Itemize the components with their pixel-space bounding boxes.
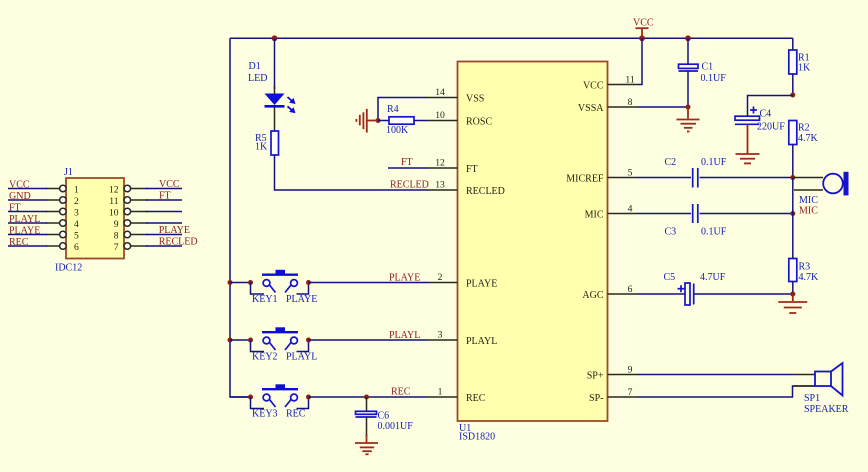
pin 3 PLAYL [428, 329, 497, 347]
svg-text:8: 8 [114, 231, 119, 242]
svg-text:VCC: VCC [159, 179, 180, 190]
svg-text:RECLED: RECLED [159, 236, 198, 247]
svg-text:MICREF: MICREF [566, 174, 604, 185]
pin 10 J1 [109, 208, 148, 219]
svg-text:4.7K: 4.7K [798, 133, 819, 144]
svg-text:PLAYE: PLAYE [389, 273, 420, 284]
svg-text:SP1: SP1 [804, 393, 820, 404]
microphone MIC [794, 172, 849, 217]
node junction AGC/R3 [790, 292, 795, 297]
capacitor C4 220UF polarized [735, 107, 785, 133]
svg-text:PLAYE: PLAYE [159, 225, 190, 236]
wire D1 anode from rail [274, 38, 276, 89]
wire J1 VCC left [8, 188, 47, 190]
svg-text:AGC: AGC [582, 290, 603, 301]
svg-text:3: 3 [438, 329, 443, 340]
svg-text:PLAYE: PLAYE [466, 279, 497, 290]
svg-text:R3: R3 [799, 262, 811, 273]
svg-text:C2: C2 [665, 157, 677, 168]
svg-text:C3: C3 [665, 226, 677, 237]
svg-text:RECLED: RECLED [390, 180, 429, 191]
wire J1 RECLED right [146, 245, 182, 247]
svg-text:MIC: MIC [585, 210, 604, 221]
pin 7 J1 [114, 242, 148, 253]
node junction R1/R2/C4 [790, 93, 795, 98]
wire VSSA to ground node [638, 106, 689, 108]
connector J1 body [55, 167, 124, 274]
svg-text:4.7K: 4.7K [799, 272, 820, 283]
capacitor C2 [638, 157, 793, 188]
pin 5 J1 [46, 231, 79, 242]
wire SP- [638, 386, 816, 397]
svg-text:10: 10 [435, 110, 445, 121]
svg-text:PLAYE: PLAYE [9, 225, 40, 236]
wire FT stub [388, 167, 428, 169]
svg-text:9: 9 [114, 219, 119, 230]
svg-text:C5: C5 [664, 272, 676, 283]
capacitor C5 4.7UF polarized [638, 272, 793, 305]
pin 1 J1 [46, 185, 79, 196]
capacitor C3 [638, 204, 793, 237]
svg-text:R2: R2 [798, 123, 810, 134]
svg-text:5: 5 [74, 231, 79, 242]
LED D1 [248, 61, 296, 131]
svg-text:14: 14 [435, 87, 445, 98]
pin 9 J1 [114, 219, 148, 230]
wire pin11 to VCC rail [638, 38, 643, 84]
pin 9 SP+ [587, 365, 638, 382]
pin 8 VSSA [578, 97, 638, 114]
pin 11 J1 [109, 196, 147, 207]
ground signal-gnd at R4 [356, 109, 378, 133]
ground earth below R3 [778, 294, 807, 313]
svg-text:REC: REC [466, 393, 486, 404]
svg-text:C1: C1 [702, 62, 714, 73]
pin 12 FT [428, 157, 478, 175]
svg-text:6: 6 [628, 284, 633, 295]
svg-text:4: 4 [628, 204, 633, 215]
wire top rail [230, 37, 793, 39]
wire J1 PLAYE left [8, 234, 47, 236]
svg-text:220UF: 220UF [757, 122, 785, 133]
svg-text:FT: FT [9, 202, 21, 213]
wire R5 to RECLED [275, 155, 429, 190]
svg-text:KEY1: KEY1 [252, 294, 278, 305]
svg-text:MIC: MIC [799, 206, 818, 217]
svg-text:SP+: SP+ [587, 371, 604, 382]
pin 12 J1 [109, 185, 148, 196]
svg-text:3: 3 [74, 208, 79, 219]
svg-text:PLAYL: PLAYL [389, 330, 420, 341]
svg-text:VSS: VSS [466, 94, 484, 105]
wire J1 PLAYL [8, 222, 47, 224]
wire J1 PLAYE right [146, 234, 182, 236]
pin 6 J1 [46, 242, 79, 253]
svg-text:0.1UF: 0.1UF [701, 226, 727, 237]
svg-text:0.1UF: 0.1UF [701, 73, 727, 84]
svg-text:C4: C4 [760, 109, 772, 120]
capacitor C6 [356, 397, 414, 432]
wire mic bias vertical [792, 178, 794, 214]
node junction VSSA/C1 [686, 105, 691, 110]
svg-text:12: 12 [109, 185, 119, 196]
svg-text:13: 13 [435, 179, 445, 190]
pin 11 VCC [583, 75, 638, 92]
svg-text:R4: R4 [387, 104, 399, 115]
svg-text:7: 7 [114, 242, 119, 253]
wire J1 pin10 right [146, 211, 182, 213]
svg-text:1K: 1K [798, 63, 811, 74]
svg-text:MIC: MIC [799, 195, 818, 206]
svg-text:ROSC: ROSC [466, 117, 492, 128]
wire REC [309, 396, 429, 398]
svg-text:10: 10 [109, 208, 119, 219]
ground earth below C1 [677, 107, 700, 132]
pushbutton KEY2 [230, 327, 317, 362]
svg-text:VCC: VCC [583, 81, 604, 92]
wire MIC node to R3 [792, 214, 794, 259]
svg-text:2: 2 [74, 196, 79, 207]
pin 7 SP- [589, 387, 637, 404]
wire J1 pin9 right [146, 222, 182, 224]
svg-text:REC: REC [9, 237, 29, 248]
svg-text:FT: FT [466, 164, 478, 175]
wire J1 REC [8, 245, 47, 247]
svg-text:1: 1 [438, 386, 443, 397]
svg-text:IDC12: IDC12 [55, 263, 82, 274]
svg-text:6: 6 [74, 242, 79, 253]
pin 1 REC [428, 386, 486, 404]
wire PLAYL [309, 339, 429, 341]
svg-text:PLAYL: PLAYL [466, 336, 497, 347]
ground earth below C6 [355, 417, 378, 454]
resistor R5 [255, 131, 279, 155]
svg-text:1K: 1K [255, 142, 268, 153]
pin 4 J1 [46, 219, 79, 230]
svg-text:D1: D1 [249, 61, 261, 72]
pin 6 AGC [582, 284, 637, 301]
pin 3 J1 [46, 208, 79, 219]
svg-text:REC: REC [391, 387, 411, 398]
svg-text:C6: C6 [378, 411, 390, 422]
pin 10 ROSC [428, 110, 492, 128]
svg-text:KEY2: KEY2 [252, 352, 278, 363]
svg-text:SPEAKER: SPEAKER [804, 404, 849, 415]
svg-text:2: 2 [438, 272, 443, 283]
svg-text:FT: FT [159, 190, 171, 201]
wire VSS pin14 to ground [378, 98, 428, 121]
node junction top-rail D1 [272, 35, 278, 41]
pin 2 PLAYE [428, 272, 497, 290]
resistor R3 [789, 259, 819, 295]
svg-text:8: 8 [628, 97, 633, 108]
pin 13 RECLED [428, 179, 505, 197]
svg-text:4: 4 [74, 219, 79, 230]
svg-text:VSSA: VSSA [578, 103, 604, 114]
svg-text:11: 11 [109, 196, 118, 207]
svg-text:VCC: VCC [633, 18, 654, 29]
node junction top-rail VCC [639, 35, 645, 41]
wire left bus vertical [230, 38, 251, 397]
wire J1 FT left [8, 211, 47, 213]
node junction bus/KEY2 [228, 338, 233, 343]
wire PLAYE [309, 282, 429, 284]
wire C4 branch [748, 96, 793, 117]
speaker SP1 [792, 363, 849, 415]
resistor R4 [378, 104, 428, 136]
pin 8 J1 [114, 231, 148, 242]
svg-text:0.1UF: 0.1UF [701, 157, 727, 168]
pushbutton KEY1 [230, 270, 317, 305]
power port VCC [633, 18, 654, 39]
svg-text:1: 1 [74, 185, 79, 196]
svg-text:KEY3: KEY3 [252, 409, 278, 420]
svg-text:9: 9 [628, 365, 633, 376]
svg-text:4.7UF: 4.7UF [700, 272, 726, 283]
svg-text:PLAYE: PLAYE [286, 294, 317, 305]
pin 2 J1 [46, 196, 79, 207]
svg-text:SP-: SP- [589, 393, 603, 404]
svg-text:VCC: VCC [9, 179, 30, 190]
pin 4 MIC [585, 204, 638, 221]
resistor R2 [789, 121, 819, 178]
svg-text:GND: GND [9, 191, 31, 202]
svg-text:REC: REC [286, 409, 306, 420]
node junction bus/KEY1 [228, 280, 233, 285]
svg-text:LED: LED [248, 73, 267, 84]
node junction MICREF [790, 175, 795, 180]
svg-text:11: 11 [625, 75, 634, 86]
svg-text:PLAYL: PLAYL [9, 214, 40, 225]
svg-text:7: 7 [628, 387, 633, 398]
svg-text:J1: J1 [64, 167, 73, 178]
wire J1 VCC right [146, 188, 182, 190]
svg-text:0.001UF: 0.001UF [378, 421, 414, 432]
svg-text:FT: FT [401, 157, 413, 168]
wire SP+ [638, 374, 792, 376]
svg-text:12: 12 [435, 157, 445, 168]
resistor R1 [789, 38, 811, 95]
capacitor C1 [679, 38, 727, 107]
svg-text:ISD1820: ISD1820 [459, 432, 495, 443]
ground earth below C4 [736, 124, 760, 163]
wire J1 GND [8, 199, 47, 201]
node junction C6/REC [364, 395, 369, 400]
svg-text:100K: 100K [386, 125, 409, 136]
pin 14 VSS [428, 87, 484, 105]
node junction R4/gnd [376, 118, 381, 123]
IC U1 ISD1820 body [458, 62, 608, 443]
pushbutton KEY3 [230, 384, 311, 419]
wire J1 FT right [146, 199, 182, 201]
svg-text:PLAYL: PLAYL [286, 352, 317, 363]
node junction MIC [790, 211, 795, 216]
svg-text:RECLED: RECLED [466, 186, 505, 197]
pin 5 MICREF [566, 168, 637, 185]
node junction top-rail C1 [685, 35, 691, 41]
svg-text:5: 5 [628, 168, 633, 179]
